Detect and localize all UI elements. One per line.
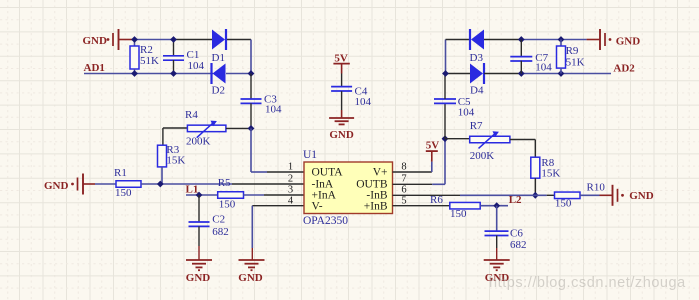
svg-text:AD2: AD2 [613, 63, 635, 75]
svg-text:R4: R4 [185, 109, 198, 121]
svg-text:GND: GND [186, 272, 211, 284]
svg-text:200K: 200K [186, 136, 211, 148]
svg-text:2: 2 [288, 174, 293, 185]
svg-text:V+: V+ [373, 167, 388, 179]
svg-text:OUTA: OUTA [312, 167, 344, 179]
svg-text:R2: R2 [140, 44, 153, 56]
svg-text:AD1: AD1 [84, 62, 105, 74]
svg-text:R9: R9 [566, 45, 579, 57]
svg-text:682: 682 [510, 239, 527, 251]
svg-text:104: 104 [458, 107, 475, 119]
svg-text:GND: GND [329, 129, 354, 141]
svg-text:104: 104 [535, 61, 552, 73]
svg-text:GND: GND [44, 180, 69, 192]
svg-text:104: 104 [265, 104, 282, 116]
svg-text:104: 104 [188, 60, 205, 72]
svg-text:D1: D1 [212, 52, 225, 64]
svg-text:GND: GND [238, 272, 263, 284]
svg-text:150: 150 [555, 198, 572, 210]
svg-text:GND: GND [629, 190, 654, 202]
svg-text:5: 5 [401, 195, 406, 206]
svg-text:R10: R10 [587, 182, 606, 194]
svg-text:+InB: +InB [364, 200, 388, 212]
svg-text:51K: 51K [140, 55, 159, 67]
svg-text:150: 150 [450, 208, 467, 220]
svg-text:8: 8 [401, 162, 406, 173]
svg-text:200K: 200K [470, 150, 495, 162]
svg-text:D4: D4 [470, 85, 484, 97]
svg-text:U1: U1 [303, 149, 317, 161]
svg-text:C2: C2 [212, 213, 225, 225]
svg-text:3: 3 [288, 185, 293, 196]
svg-text:C6: C6 [510, 228, 523, 240]
svg-text:GND: GND [83, 35, 108, 47]
svg-text:5V: 5V [334, 52, 348, 64]
svg-text:150: 150 [115, 187, 132, 199]
svg-text:4: 4 [288, 195, 294, 206]
svg-text:104: 104 [355, 96, 372, 108]
svg-text:D2: D2 [212, 85, 225, 97]
svg-text:7: 7 [401, 174, 406, 185]
svg-text:15K: 15K [166, 154, 185, 166]
svg-text:15K: 15K [541, 167, 560, 179]
svg-text:6: 6 [401, 185, 406, 196]
svg-text:150: 150 [219, 199, 236, 211]
svg-text:682: 682 [212, 226, 229, 238]
svg-text:L2: L2 [509, 194, 522, 206]
svg-text:R1: R1 [114, 167, 127, 179]
svg-text:R5: R5 [218, 177, 231, 189]
svg-text:V-: V- [312, 200, 323, 212]
svg-text:L1: L1 [186, 183, 199, 195]
svg-text:R7: R7 [470, 120, 483, 132]
svg-text:1: 1 [288, 162, 293, 173]
svg-text:51K: 51K [566, 57, 585, 69]
svg-text:OPA2350: OPA2350 [303, 215, 348, 227]
svg-text:D3: D3 [470, 52, 484, 64]
svg-text:GND: GND [616, 36, 641, 48]
svg-text:R6: R6 [430, 194, 443, 206]
svg-text:5V: 5V [426, 140, 440, 152]
